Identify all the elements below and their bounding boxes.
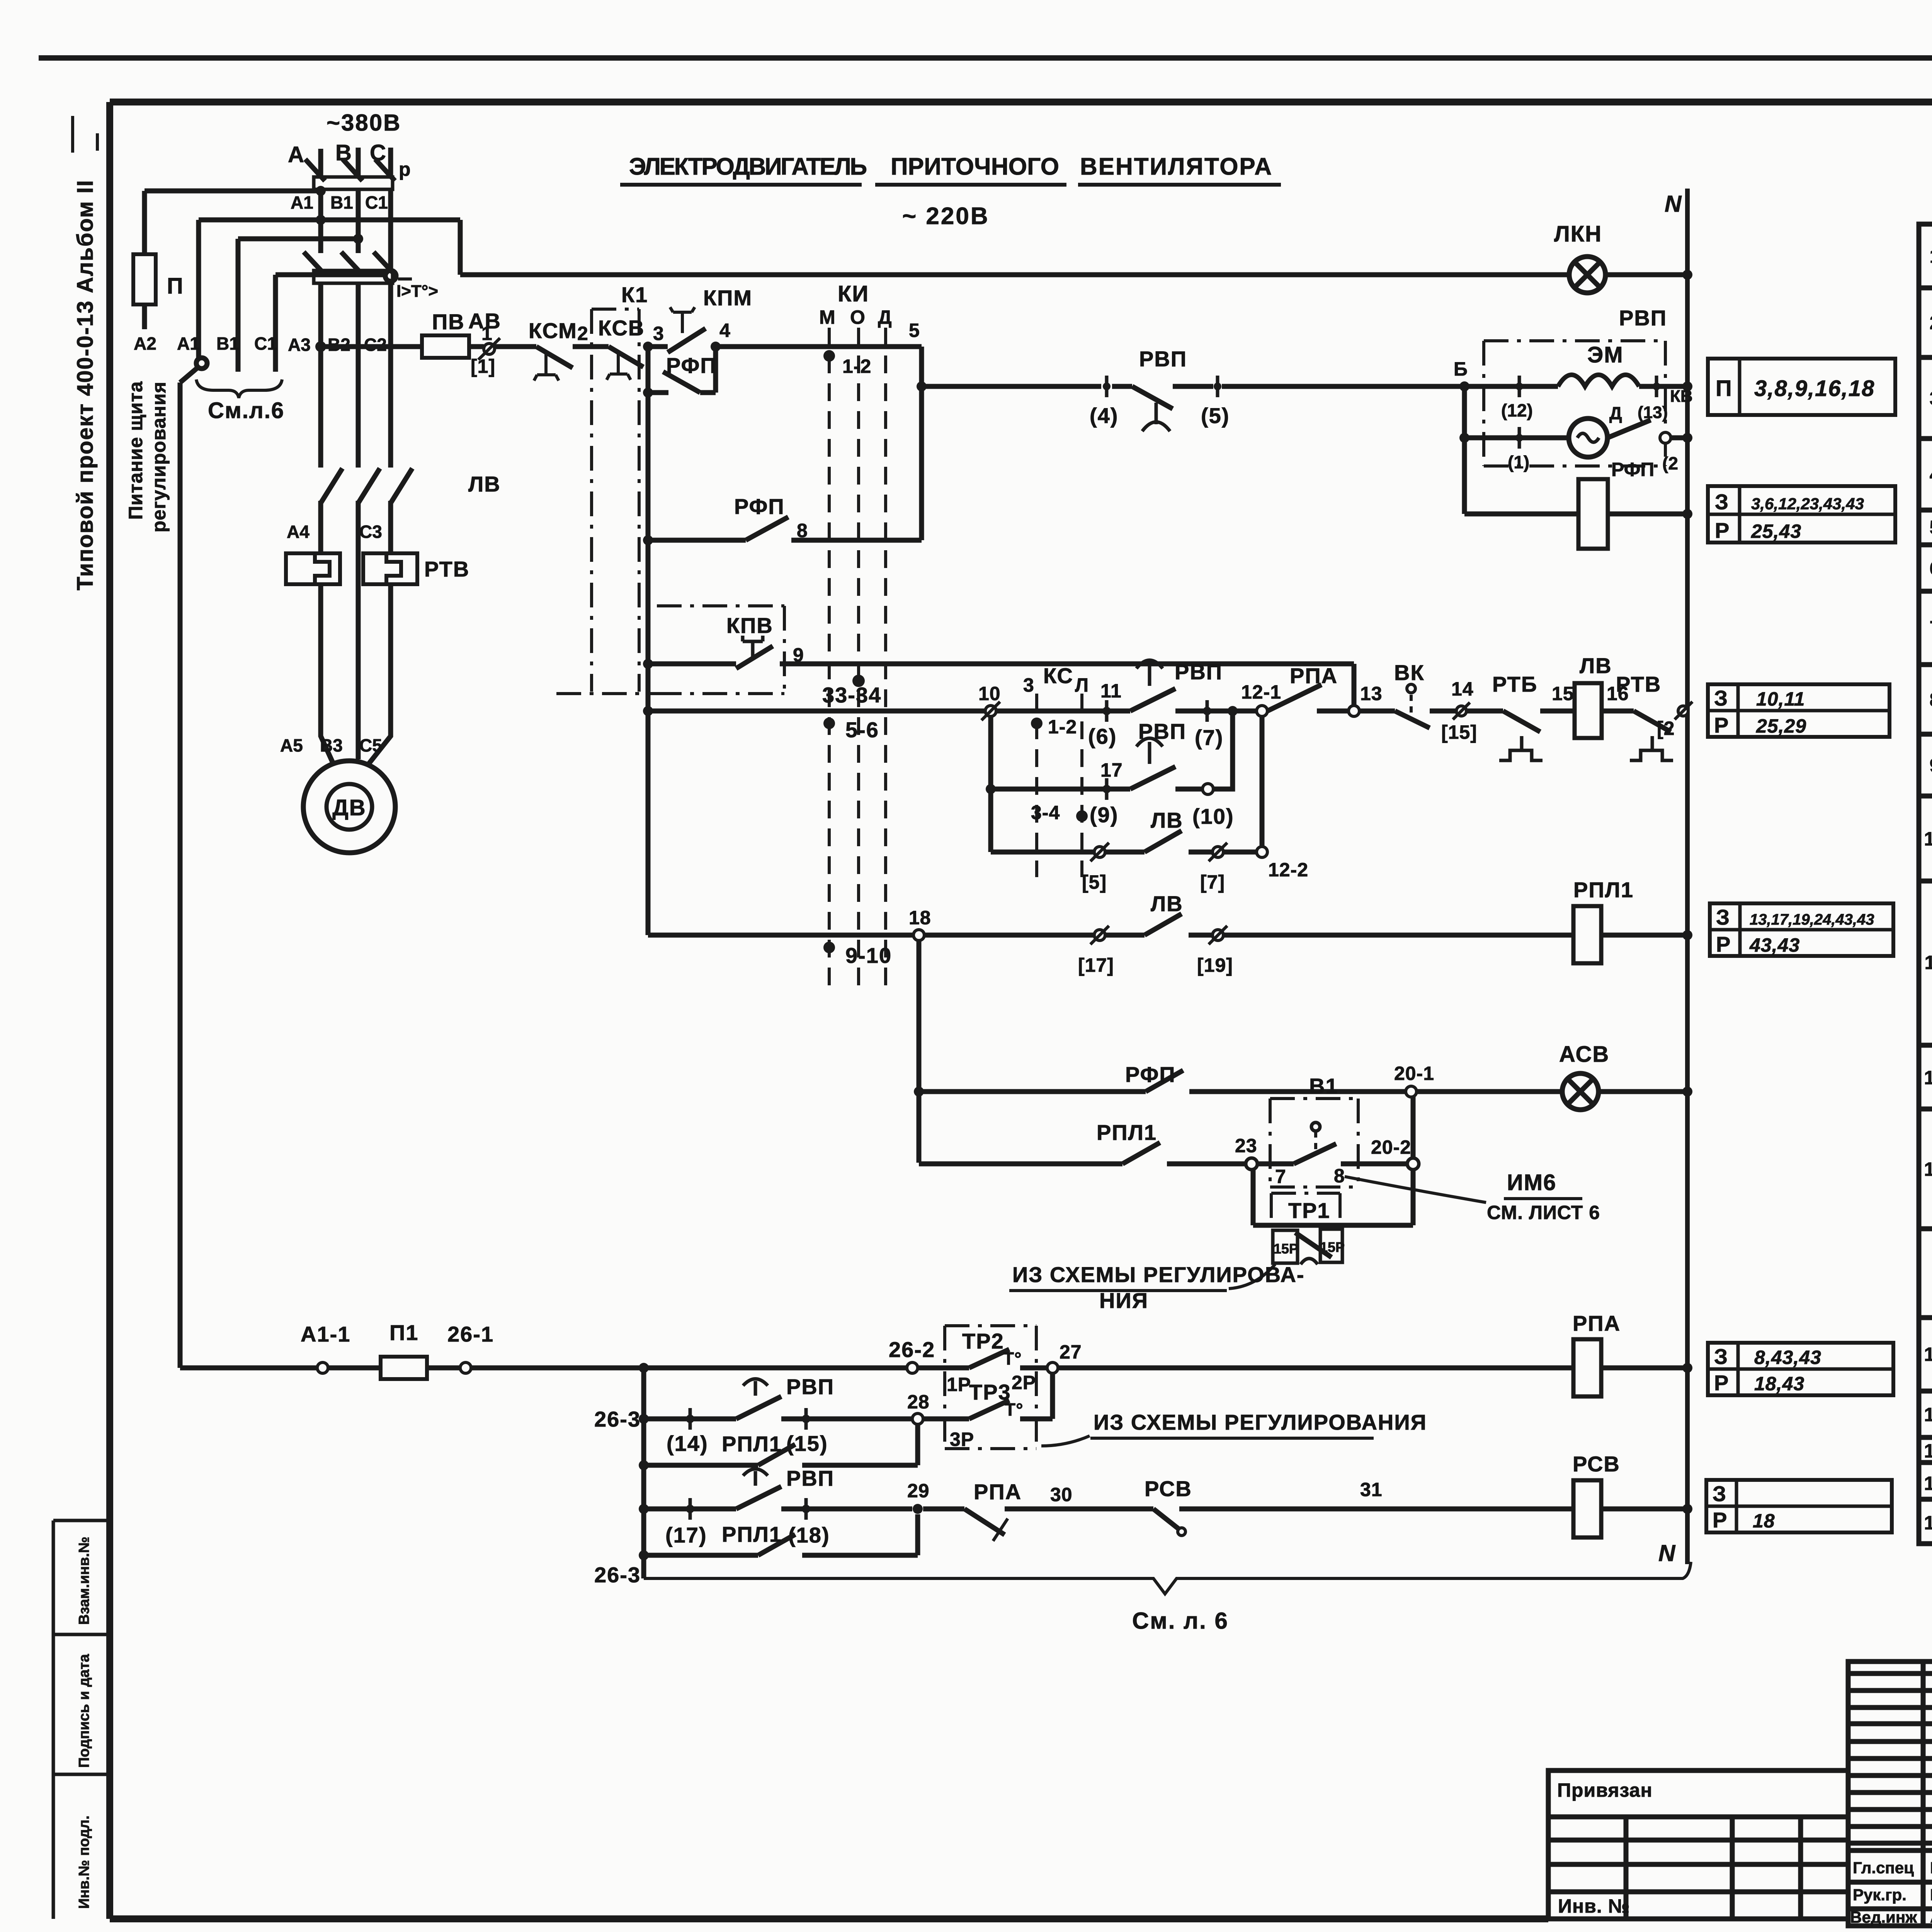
frame bottom border [110, 1915, 1548, 1922]
node on N [1682, 1363, 1692, 1373]
svg-text:26-3: 26-3 [594, 1407, 641, 1431]
svg-text:ПВ: ПВ [432, 310, 465, 334]
svg-text:КСМ: КСМ [529, 318, 577, 343]
svg-text:(1): (1) [1508, 452, 1529, 472]
phase C to thermal [388, 501, 393, 553]
svg-text:26-3: 26-3 [594, 1563, 641, 1587]
svg-text:КПМ: КПМ [703, 286, 752, 310]
signature names [1850, 1859, 1932, 1926]
svg-text:ТР1: ТР1 [1288, 1198, 1330, 1223]
frame left border [106, 102, 113, 1919]
svg-text:13: 13 [1924, 1158, 1932, 1180]
terminal box 15R right [1320, 1229, 1345, 1262]
coil RPL1 [1573, 906, 1601, 963]
node 4 [711, 342, 721, 352]
terminal [19] [1209, 926, 1227, 944]
svg-text:28: 28 [907, 1391, 930, 1413]
wire to N [1671, 435, 1687, 440]
svg-text:Рук.гр.: Рук.гр. [1853, 1886, 1906, 1904]
fuse P body [133, 254, 156, 304]
wire node3 to KPM [648, 344, 668, 349]
svg-text:р: р [399, 158, 411, 180]
wire VK to 14 [1430, 709, 1503, 714]
wire A1 control [196, 220, 201, 359]
svg-text:18: 18 [1924, 1473, 1932, 1494]
wire to contact [648, 538, 746, 543]
svg-text:Взам.инв.№: Взам.инв.№ [76, 1537, 92, 1625]
svg-text:25,29: 25,29 [1756, 715, 1806, 737]
wire to 12-1 [1175, 709, 1257, 714]
terminal (15) [802, 1408, 810, 1430]
svg-text:3,8,9,16,18: 3,8,9,16,18 [1754, 376, 1875, 401]
svg-text:регулирования: регулирования [148, 381, 170, 532]
disconnect switch QS box [314, 177, 393, 189]
terminal 26-2 [907, 1362, 918, 1373]
tap wire to fuse P [145, 189, 321, 194]
svg-text:N: N [1658, 1540, 1676, 1566]
svg-text:10: 10 [978, 683, 1001, 704]
svg-text:Д: Д [1609, 403, 1622, 423]
svg-text:ЛВ: ЛВ [1580, 653, 1612, 678]
riser 28 to 27 [1050, 1373, 1055, 1419]
svg-text:Типовой проект 400-0-13 Альбом: Типовой проект 400-0-13 Альбом II [73, 179, 98, 590]
terminal (13) [1653, 376, 1660, 397]
svg-text:3-4: 3-4 [1031, 802, 1060, 823]
left margin project caption [73, 116, 98, 590]
svg-text:3: 3 [1930, 388, 1932, 409]
svg-text:РФП: РФП [1611, 459, 1654, 480]
terminal 20-2 [1407, 1158, 1419, 1170]
svg-text:А3: А3 [288, 335, 311, 355]
motor DV [303, 761, 395, 853]
svg-text:33-34: 33-34 [822, 683, 881, 707]
feed corner wire down [458, 220, 463, 275]
svg-text:РФП: РФП [1125, 1062, 1176, 1087]
phase B through [356, 501, 361, 759]
wire node2 to KSV [573, 344, 609, 349]
terminal [5] [1090, 843, 1109, 861]
wire phase A top [318, 149, 323, 179]
contact RVP (time) [1112, 386, 1173, 431]
contact TR2 [918, 1349, 1047, 1369]
terminal [7] [1209, 843, 1227, 861]
terminal (14) [686, 1408, 694, 1430]
terminal (12) [1515, 376, 1523, 397]
fuse PV [422, 335, 469, 358]
KS dashed line L [1080, 694, 1083, 877]
wire A1 diagonal [180, 367, 198, 383]
svg-text:1: 1 [1930, 245, 1932, 267]
phase A below AB [318, 283, 323, 468]
label IM6 [1487, 1170, 1600, 1223]
svg-text:Р: Р [1715, 518, 1730, 543]
svg-text:(5): (5) [1201, 403, 1230, 428]
privyazan box [1548, 1770, 1848, 1919]
svg-text:А2: А2 [134, 333, 156, 354]
riser to 29 [915, 1514, 920, 1555]
thermal relay RTV element C [363, 553, 417, 584]
svg-text:А1-1: А1-1 [301, 1322, 350, 1346]
label from regulation scheme 2 [1041, 1410, 1427, 1446]
contact RVP on rung 10 [1130, 660, 1175, 711]
wire to node B [1222, 384, 1464, 389]
svg-text:П: П [1716, 376, 1733, 401]
node on rail at RFP aux [643, 388, 653, 398]
svg-text:(9): (9) [1090, 803, 1118, 827]
svg-text:15: 15 [1924, 1344, 1932, 1365]
svg-text:С3: С3 [359, 522, 382, 542]
svg-text:10,11: 10,11 [1756, 688, 1805, 710]
svg-text:РПА: РПА [1290, 663, 1338, 688]
svg-text:К1: К1 [621, 282, 648, 307]
svg-text:20-1: 20-1 [1394, 1063, 1434, 1084]
svg-text:КВ: КВ [1670, 387, 1693, 406]
RVP dashed enclosure [1484, 341, 1665, 466]
contactor LV blades [321, 468, 342, 503]
drawing frame top border [110, 99, 1932, 105]
left rail vertical (from node 3) [646, 347, 651, 935]
thermal relay RTV element A [286, 553, 340, 584]
svg-text:ЛКН: ЛКН [1554, 221, 1602, 247]
left rail lower vertical [641, 1368, 646, 1578]
contact RPL1 [1122, 1143, 1160, 1164]
svg-text:5-6: 5-6 [845, 718, 879, 742]
contact RPL1 [758, 1444, 795, 1465]
tap 3 wire B1 [238, 236, 358, 241]
wire to contact [919, 1162, 1122, 1167]
svg-text:Р: Р [1714, 1371, 1729, 1395]
drawing title [620, 153, 1281, 230]
svg-text:РСВ: РСВ [1145, 1476, 1192, 1501]
wire to 20-2 [1341, 1162, 1408, 1167]
svg-text:РПА: РПА [1573, 1311, 1621, 1335]
svg-text:С1: С1 [365, 192, 388, 213]
node on N [1682, 1504, 1692, 1514]
svg-text:19: 19 [1924, 1512, 1932, 1534]
wire to terminal 5 [1173, 384, 1213, 389]
fuse P1 [381, 1357, 427, 1379]
svg-text:12-2: 12-2 [1268, 859, 1308, 881]
coil RFP [1578, 479, 1608, 549]
terminal 14 [1453, 702, 1470, 719]
terminal 20-1 [1406, 1086, 1417, 1097]
terminal 23 [1246, 1158, 1257, 1170]
terminal 1-2 on M [823, 350, 835, 362]
wire to 29 [781, 1507, 912, 1512]
svg-text:I>Т°>: I>Т°> [396, 282, 438, 301]
signature grid thin rows [1848, 1662, 1932, 1926]
svg-text:А1: А1 [177, 333, 200, 354]
wire to terminal 14 [644, 1417, 736, 1422]
svg-text:3: 3 [653, 323, 664, 344]
svg-text:2: 2 [577, 323, 588, 344]
terminal 12-2 [1257, 847, 1267, 857]
terminal (10) open [1202, 784, 1213, 794]
svg-text:Д: Д [878, 306, 892, 328]
coil RSV [1573, 1480, 1601, 1537]
terminal 1-2 dot [1031, 718, 1043, 729]
svg-text:(17): (17) [665, 1523, 707, 1547]
wire phase C top [388, 148, 393, 179]
svg-text:9-10: 9-10 [845, 943, 892, 968]
svg-text:26-1: 26-1 [447, 1322, 494, 1346]
phase A to thermal [318, 501, 323, 553]
contact TR3 [923, 1400, 1053, 1420]
svg-text:КИ: КИ [838, 281, 869, 306]
svg-text:1: 1 [481, 323, 493, 344]
left margin stamp boxes [53, 1520, 110, 1919]
wire to contact [648, 662, 736, 667]
branch vertical from 10 [988, 716, 993, 852]
svg-text:РВП: РВП [1175, 660, 1223, 684]
svg-text:4: 4 [1930, 464, 1932, 485]
svg-text:[1]: [1] [471, 355, 495, 377]
node at D rung [1459, 433, 1469, 443]
svg-text:[5]: [5] [1082, 871, 1107, 893]
corner 9-rung down to 13 [1352, 664, 1357, 706]
wire [644, 1463, 758, 1468]
wire to 26-2 [644, 1366, 907, 1371]
contact RPA [1267, 685, 1321, 711]
contact RVP 2 [1130, 738, 1175, 789]
svg-text:17: 17 [1100, 759, 1123, 781]
svg-text:Р: Р [1713, 1508, 1728, 1532]
contact KV [1607, 420, 1651, 438]
terminal (2) open [1660, 432, 1671, 443]
terminal box 15R left [1273, 1230, 1298, 1263]
contact KPV (pushbutton) [736, 636, 773, 668]
svg-text:(7): (7) [1195, 725, 1223, 750]
node A1 terminal circle [196, 358, 207, 369]
svg-text:Инв.№ подл.: Инв.№ подл. [76, 1815, 92, 1909]
contact KPM (pushbutton) [668, 307, 706, 352]
relay K1 dashed enclosure [592, 309, 639, 692]
svg-text:В1: В1 [216, 333, 239, 354]
wire lamp to N [1605, 272, 1687, 277]
wire LV to RTV [1602, 709, 1634, 714]
lamp LKN [1569, 257, 1605, 293]
terminal 10 [981, 702, 1000, 720]
svg-text:РФП: РФП [734, 494, 785, 519]
svg-text:РФП: РФП [666, 353, 717, 378]
circuit breaker AB box [314, 270, 393, 283]
svg-text:ИЗ СХЕМЫ РЕГУЛИРОВАНИЯ: ИЗ СХЕМЫ РЕГУЛИРОВАНИЯ [1094, 1410, 1427, 1434]
svg-text:1Р: 1Р [947, 1374, 971, 1395]
dashed line O [857, 328, 860, 985]
label from regulation scheme [1009, 1262, 1305, 1313]
svg-text:А4: А4 [287, 522, 310, 542]
node on N at lamp rung [1682, 270, 1692, 280]
svg-text:СМ. ЛИСТ 6: СМ. ЛИСТ 6 [1487, 1202, 1600, 1223]
svg-text:П1: П1 [389, 1320, 418, 1345]
svg-text:РПЛ1: РПЛ1 [722, 1522, 782, 1546]
terminal (5) [1214, 376, 1221, 397]
svg-text:1-2: 1-2 [1048, 716, 1077, 738]
svg-text:17: 17 [1924, 1440, 1932, 1462]
wire 18 to [17] [924, 933, 1094, 938]
svg-text:ИЗ СХЕМЫ РЕГУЛИРОВА-: ИЗ СХЕМЫ РЕГУЛИРОВА- [1012, 1262, 1305, 1287]
node at EM rung tap [917, 381, 927, 391]
svg-text:ИМ6: ИМ6 [1507, 1170, 1556, 1195]
wire coil to N [1601, 1507, 1687, 1512]
contact LV [1145, 831, 1182, 852]
terminal 12-1 [1257, 706, 1267, 716]
svg-text:(6): (6) [1088, 724, 1117, 748]
svg-text:КС: КС [1043, 663, 1073, 688]
node B [1459, 381, 1469, 391]
svg-text:Р: Р [1714, 713, 1729, 737]
svg-text:ТР2: ТР2 [962, 1329, 1004, 1353]
node A3 (main rung tap) [315, 341, 326, 352]
loop bottom [1253, 1223, 1413, 1228]
svg-text:РТВ: РТВ [424, 557, 469, 581]
node on rail [643, 659, 653, 669]
brace see sheet 6 [196, 379, 282, 398]
wire [1005, 1507, 1153, 1512]
terminal 18 [913, 930, 924, 940]
wire to (10) [1175, 787, 1202, 792]
svg-text:КПВ: КПВ [726, 613, 773, 638]
wire EM to N [1639, 384, 1687, 389]
circuit breaker AB blades [304, 252, 325, 275]
node rail junction [639, 1363, 649, 1373]
terminal 3-4 dot [1076, 810, 1088, 822]
svg-text:Б: Б [1454, 358, 1468, 380]
svg-text:1-2: 1-2 [842, 355, 871, 377]
svg-text:ВЕНТИЛЯТОРА: ВЕНТИЛЯТОРА [1080, 153, 1273, 180]
disconnect switch QS blades [305, 159, 325, 181]
corner rail to rung [648, 933, 913, 938]
svg-text:3: 3 [1023, 674, 1034, 696]
svg-text:2: 2 [1930, 312, 1932, 333]
svg-text:14: 14 [1451, 678, 1474, 700]
node on rail [639, 1504, 649, 1514]
node 29 [913, 1504, 923, 1514]
svg-text:Подпись и дата: Подпись и дата [76, 1654, 92, 1768]
wire to 20-1 [1189, 1089, 1406, 1094]
svg-text:КСВ: КСВ [598, 316, 645, 340]
wire coil to N [1601, 933, 1687, 938]
svg-text:Инв. №: Инв. № [1558, 1895, 1630, 1917]
node A on phase A (tap 2) [316, 215, 326, 225]
svg-text:8: 8 [1930, 689, 1932, 711]
svg-text:20-2: 20-2 [1371, 1136, 1411, 1158]
svg-text:ПРИТОЧНОГО: ПРИТОЧНОГО [891, 153, 1061, 180]
svg-text:(4): (4) [1090, 403, 1118, 428]
svg-text:З: З [1714, 686, 1728, 710]
svg-text:10: 10 [1924, 828, 1932, 850]
svg-text:30: 30 [1050, 1484, 1073, 1505]
wire B1 down [236, 239, 241, 372]
lamp ASV [1562, 1073, 1599, 1110]
contact RTV 2 (thermal NC) [1630, 711, 1673, 760]
wire to 28 [781, 1417, 912, 1422]
svg-text:З: З [1716, 905, 1730, 929]
svg-text:~ 220В: ~ 220В [902, 203, 990, 230]
dashed line D [884, 328, 887, 985]
svg-text:(12): (12) [1501, 400, 1533, 420]
wire node4 to KI [716, 344, 922, 349]
svg-text:5: 5 [1930, 517, 1932, 538]
coil EM (inductor) [1558, 375, 1639, 386]
riser 20-1 to 20-2 to loop [1411, 1097, 1416, 1158]
loop riser left (23 down) [1251, 1169, 1256, 1225]
pointer line from regulation text [1229, 1264, 1275, 1289]
wire 13 to VK [1359, 709, 1395, 714]
wire 27 to coil RPA [1058, 1366, 1573, 1371]
svg-text:3,6,12,23,43,43: 3,6,12,23,43,43 [1751, 495, 1864, 513]
svg-text:Аксенов: Аксенов [1930, 1908, 1932, 1926]
svg-text:[17]: [17] [1078, 954, 1114, 976]
see sheet 6 brace line [644, 1562, 1691, 1594]
svg-text:[7]: [7] [1200, 871, 1225, 893]
wire to terminal 1 [1464, 435, 1569, 440]
node on rail [643, 535, 653, 545]
svg-text:РПЛ1: РПЛ1 [1097, 1120, 1157, 1145]
svg-text:9: 9 [1930, 755, 1932, 776]
svg-text:(13): (13) [1638, 403, 1668, 422]
table row numbers [1924, 245, 1932, 1534]
svg-text:РСВ: РСВ [1573, 1452, 1620, 1476]
corner from branch [991, 850, 1094, 855]
wire 9-rung to corner [780, 662, 1354, 667]
wire to 23 [1167, 1162, 1246, 1167]
svg-text:В3: В3 [320, 735, 343, 755]
wire [469, 344, 484, 349]
wire B to coil [1464, 384, 1558, 389]
svg-text:РТВ: РТВ [1616, 672, 1661, 696]
KS dashed line 3 [1035, 694, 1038, 877]
V1 dashed enclosure [1270, 1099, 1358, 1187]
wire [991, 787, 1130, 792]
svg-text:Л: Л [1075, 674, 1089, 696]
svg-text:З: З [1714, 1344, 1728, 1369]
svg-text:ЛВ: ЛВ [1151, 891, 1183, 916]
wire lamp to N [1599, 1089, 1687, 1094]
aux contact RFP (seal-in) [648, 347, 716, 393]
svg-text:(14): (14) [667, 1431, 708, 1456]
TR1 dashed enclosure [1271, 1193, 1340, 1223]
svg-text:2Р: 2Р [1012, 1372, 1036, 1393]
node on N [1682, 381, 1692, 391]
terminal (17) [686, 1498, 694, 1520]
svg-text:См. л. 6: См. л. 6 [1132, 1608, 1229, 1634]
contact RPL1 [758, 1534, 795, 1555]
svg-text:З: З [1713, 1481, 1727, 1506]
svg-text:С5: С5 [359, 735, 382, 755]
button KPV dashed enclosure [556, 606, 784, 694]
contact KSV [607, 347, 643, 380]
svg-text:В1: В1 [1309, 1074, 1338, 1098]
wire [644, 1507, 736, 1512]
terminal (7) [1203, 700, 1211, 722]
svg-text:Бунич: Бунич [1930, 1859, 1932, 1877]
sheet top edge line [39, 55, 1932, 61]
phase B below AB [356, 283, 361, 468]
svg-text:11: 11 [1100, 680, 1122, 702]
svg-text:[19]: [19] [1197, 954, 1233, 976]
wire to coil RPL1 [1189, 933, 1213, 938]
wire coil to N [1601, 1366, 1687, 1371]
contact RFP [1146, 1070, 1183, 1092]
svg-text:РВП: РВП [786, 1466, 834, 1490]
terminal (18) [802, 1498, 810, 1520]
svg-text:29: 29 [907, 1480, 930, 1502]
node on N [1682, 930, 1692, 940]
wire to lamp [1417, 1089, 1563, 1094]
svg-text:П: П [167, 274, 184, 299]
corner node 5 down [919, 347, 924, 540]
